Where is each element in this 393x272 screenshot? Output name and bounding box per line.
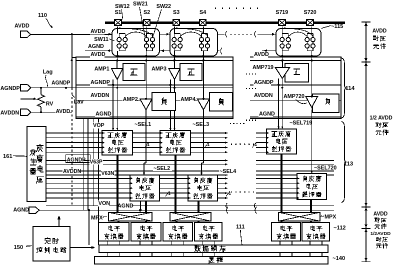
svg-text:VON: VON: [98, 201, 110, 207]
svg-text:AMP2: AMP2: [123, 97, 138, 103]
svg-text:AMP720: AMP720: [284, 94, 305, 100]
svg-text:SW12: SW12: [115, 4, 130, 10]
svg-text:161: 161: [3, 154, 12, 160]
svg-text:111: 111: [236, 225, 245, 231]
svg-text:~115: ~115: [331, 24, 343, 30]
svg-text:AGNDP: AGNDP: [52, 81, 71, 87]
svg-text:AVDD: AVDD: [91, 29, 106, 35]
svg-text:AGND: AGND: [88, 44, 104, 50]
svg-text:AVDDN: AVDDN: [91, 93, 110, 99]
svg-text:AGNDP: AGNDP: [0, 86, 20, 92]
svg-text:~SEL4: ~SEL4: [220, 169, 237, 175]
svg-text:Lag: Lag: [43, 70, 54, 76]
svg-text:SW22: SW22: [156, 4, 171, 10]
svg-text:S4: S4: [200, 10, 207, 16]
svg-text:AVDD: AVDD: [254, 52, 269, 58]
svg-text:AGND: AGND: [259, 112, 275, 118]
svg-text:150: 150: [14, 245, 23, 251]
svg-text:AVDDN: AVDDN: [0, 111, 19, 117]
svg-text:AGNDP: AGNDP: [91, 80, 111, 86]
svg-text:AMP3: AMP3: [152, 67, 167, 73]
svg-text:V63P: V63P: [90, 159, 103, 165]
svg-text:AGNDP: AGNDP: [254, 80, 274, 86]
svg-text:MPX: MPX: [91, 215, 103, 221]
svg-text:V63N: V63N: [101, 171, 114, 177]
svg-text:AGND: AGND: [118, 203, 134, 209]
svg-text:S719: S719: [276, 10, 289, 16]
svg-text:1/2AVDD: 1/2AVDD: [370, 231, 391, 237]
svg-text:1/2 AVDD: 1/2 AVDD: [370, 116, 393, 122]
svg-text:~SEL3: ~SEL3: [193, 122, 210, 128]
svg-text:~SEL719: ~SEL719: [290, 121, 313, 127]
svg-text:AVDDN: AVDDN: [63, 169, 81, 175]
svg-text:MPX: MPX: [325, 214, 337, 220]
svg-text:SW21: SW21: [133, 2, 148, 8]
svg-text:AVDD: AVDD: [15, 23, 30, 29]
svg-text:AVDDN: AVDDN: [254, 93, 273, 99]
svg-text:AGND: AGND: [13, 208, 29, 214]
svg-text:~140: ~140: [333, 256, 346, 262]
svg-text:VOP: VOP: [93, 123, 105, 129]
svg-text:AVDD: AVDD: [91, 52, 106, 58]
svg-text:AMP1: AMP1: [94, 67, 109, 73]
svg-text:RV: RV: [46, 101, 54, 107]
svg-text:AMP719: AMP719: [253, 65, 274, 71]
svg-text:S2: S2: [144, 10, 151, 16]
svg-text:S3: S3: [173, 10, 180, 16]
svg-text:S1: S1: [115, 10, 122, 16]
svg-text:AMP4: AMP4: [181, 97, 196, 103]
svg-text:113: 113: [344, 162, 354, 168]
svg-text:AVDD: AVDD: [56, 109, 71, 115]
svg-text:~SEL1: ~SEL1: [135, 122, 152, 128]
svg-text:~112: ~112: [334, 225, 346, 231]
svg-text:~SEL2: ~SEL2: [154, 166, 171, 172]
svg-text:AVDD: AVDD: [373, 212, 388, 218]
svg-text:AVDD: AVDD: [372, 29, 387, 35]
svg-text:114: 114: [345, 86, 355, 92]
svg-text:S720: S720: [304, 10, 317, 16]
svg-text:110: 110: [38, 13, 47, 19]
svg-text:AGND: AGND: [96, 112, 112, 118]
svg-text:~SEL720: ~SEL720: [314, 165, 337, 171]
svg-text:SW11: SW11: [94, 37, 108, 43]
